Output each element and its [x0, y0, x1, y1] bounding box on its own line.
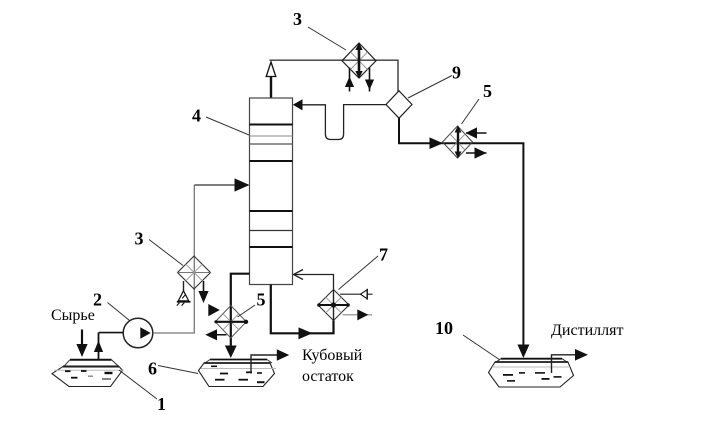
liquid dashes in tank 6 [211, 365, 217, 367]
tank 1 (feed drum) [52, 360, 124, 387]
wire: overhead vapor line from column top to condenser and to divider 9 [270, 60, 399, 91]
svg-text:5: 5 [483, 81, 492, 101]
wire: column vapor outlet riser [270, 76, 272, 99]
open arrow on vapor riser [266, 62, 276, 77]
reboiler 7 (heat exchanger) [317, 290, 350, 321]
steam inlet stub of reboiler 7 (open arrow left) [340, 293, 373, 295]
flow divider node 9 (empty diamond) [386, 91, 412, 118]
arrow down into receiver 10 [517, 345, 529, 359]
svg-text:1: 1 [157, 394, 166, 414]
wire: feed entry into column [194, 184, 248, 186]
coolant outlet stub of cooler 5 (arrow right) [466, 152, 487, 154]
tray line thick [250, 246, 293, 248]
tray line thin [250, 143, 293, 145]
tray line thick [250, 124, 293, 126]
pump P2 (centrifugal pump) [123, 318, 153, 348]
wire: distillate line from node 9 through cooler 5 to receiver 10 [399, 118, 523, 345]
leader line to tank 10 [463, 335, 500, 360]
leader line to condenser 3 [308, 27, 346, 50]
tank 6 (bottoms receiver) [199, 360, 277, 387]
wire: reflux line with U-seal to column top [301, 105, 387, 140]
leader line to tank 6 [158, 366, 198, 374]
leader line to pump 2 [108, 303, 130, 321]
svg-text:9: 9 [452, 63, 461, 83]
svg-text:остаток: остаток [302, 368, 354, 385]
svg-text:Дистиллят: Дистиллят [551, 322, 623, 339]
svg-text:2: 2 [93, 290, 102, 310]
column K4 (rectification column) [250, 98, 293, 285]
svg-text:7: 7 [379, 245, 388, 265]
coolant outlet stub of cooler 5 bottom (arrow left) [210, 334, 227, 336]
condensate outlet stub of reboiler 7 (arrow right) [343, 314, 373, 316]
arrow on distillate line [430, 137, 444, 149]
leader line to preheater 3 [149, 240, 183, 266]
condenser C3 (top heat exchanger) [342, 43, 376, 79]
svg-text:5: 5 [257, 290, 266, 310]
reflux arrow into column [293, 99, 303, 110]
svg-text:Сырье: Сырье [51, 307, 95, 324]
tank 10 (distillate receiver) [489, 359, 574, 387]
leader line to column 4 [206, 117, 249, 135]
svg-text:6: 6 [148, 359, 157, 379]
heating medium drain stub of preheater 3 [183, 281, 185, 292]
coolant outlet stub of C3 (arrow down) [369, 68, 371, 92]
coolant inlet stub of cooler 5 bottom (arrow right) [208, 304, 220, 316]
feed preheater 3 (bottom heat exchanger on riser) [178, 256, 211, 289]
condensate outlet stub of preheater 3 (arrow down) [203, 281, 205, 292]
svg-text:4: 4 [192, 106, 201, 126]
wire: reboiler vapor return to column [294, 275, 334, 291]
bottoms cooler 5 (bottom heat exchanger) [214, 306, 248, 339]
leader line to bottoms cooler 5 [238, 305, 256, 317]
distillate product outlet from tank 10 [552, 355, 577, 373]
svg-text:3: 3 [135, 229, 144, 249]
tray line thick [250, 210, 293, 212]
tray line thick [250, 160, 293, 162]
coolant inlet stub of C3 (arrow up) [349, 68, 351, 92]
feed inlet arrow into tank 1 [81, 330, 83, 347]
liquid level line in tank 6 [201, 368, 276, 370]
pump suction line from tank 1 [98, 333, 100, 360]
drain (atmospheric) symbol [177, 291, 191, 306]
svg-text:10: 10 [435, 318, 453, 338]
wire: bottoms draw from column through cooler to tank 6 [231, 274, 250, 346]
leader line to tank 1 [119, 370, 157, 399]
wire: pump discharge to feed riser [153, 185, 195, 333]
leader line to cooler 5 [462, 99, 480, 124]
liquid dashes in tank 10 [503, 374, 513, 376]
svg-text:Кубовый: Кубовый [302, 347, 363, 364]
coolant inlet stub of cooler 5 (arrow left) [466, 132, 487, 134]
distillate cooler 5 (right heat exchanger) [443, 126, 473, 159]
tray line thin [250, 135, 293, 137]
wire: column bottom outlet to reboiler [271, 285, 334, 334]
liquid level line in tank 10 [492, 366, 570, 368]
tray line thin [250, 230, 293, 232]
leader line to reboiler 7 [339, 256, 379, 290]
liquid level line in tank 1 [54, 369, 124, 371]
open arrow into column from reboiler [294, 270, 304, 280]
liquid dashes in tank 1 [65, 370, 71, 372]
bottoms product outlet from tank 6 [251, 355, 277, 374]
svg-text:3: 3 [293, 9, 302, 29]
leader line to node 9 [408, 76, 452, 99]
